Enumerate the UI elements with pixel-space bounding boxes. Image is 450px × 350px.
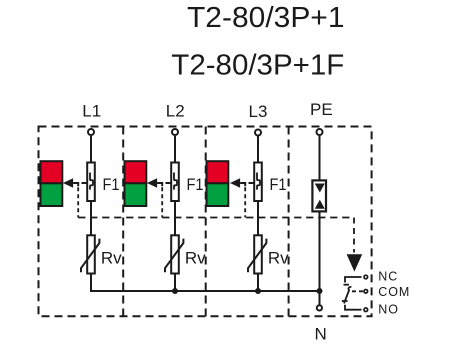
disconnector squiggle (branch 2) [174, 173, 177, 190]
junction L3/bus [255, 288, 261, 294]
svg-text:L2: L2 [166, 102, 185, 121]
svg-text:L1: L1 [82, 102, 101, 121]
svg-text:NO: NO [378, 302, 399, 316]
disconnector strike line (branch 1) [82, 182, 87, 184]
arrow tail (branch 2) [157, 183, 162, 186]
wire L1 terminal to fuse [90, 136, 92, 162]
wire fuse to varistor (branch 3) [257, 202, 259, 235]
indicator red (branch 2) [125, 161, 147, 183]
indicator green (branch 2) [125, 183, 147, 206]
GDT lower arrow (up) [315, 200, 325, 209]
arrow tail (branch 3) [240, 183, 245, 186]
arrow tail (branch 1) [73, 183, 78, 186]
svg-text:Rv: Rv [268, 249, 289, 268]
linkage dashed drop (branch 2) [161, 187, 163, 217]
COM lever [344, 287, 351, 304]
COM terminal circle [364, 290, 368, 294]
GDT upper arrow (down) [315, 184, 325, 193]
wire varistor to bus (branch 2) [174, 275, 176, 293]
indicator red (branch 1) [41, 161, 63, 183]
varistor diagonal (branch 2) [165, 239, 183, 273]
svg-text:N: N [315, 325, 327, 344]
terminal L1 [88, 129, 94, 135]
svg-text:F1: F1 [103, 175, 120, 194]
wire varistor to bus (branch 1) [90, 275, 92, 293]
disconnector squiggle (branch 1) [90, 173, 93, 190]
arrow to indicator (branch 1) [63, 178, 73, 188]
disconnector squiggle (branch 3) [257, 173, 260, 190]
separator dashed line 2 [205, 127, 207, 317]
linkage dashed drop (branch 3) [244, 187, 246, 217]
terminal L3 [255, 130, 261, 136]
fuse F1 (branch 3) body [254, 163, 262, 202]
wire varistor to bus (branch 3) [257, 275, 259, 293]
wire L3 terminal to fuse [257, 136, 259, 162]
fuse F1 (branch 2) body [171, 163, 179, 202]
varistor Rv (branch 3) body [254, 235, 262, 273]
junction PE/bus [317, 288, 323, 294]
NC rest tick [344, 284, 350, 286]
varistor diagonal (branch 1) [81, 239, 99, 273]
wire fuse to varistor (branch 2) [174, 202, 176, 235]
linkage dashed vertical to contact [353, 218, 355, 253]
bottom bus wire [91, 290, 320, 292]
svg-text:L3: L3 [249, 102, 268, 121]
svg-text:T2-80/3P+1F: T2-80/3P+1F [171, 50, 344, 82]
svg-text:T2-80/3P+1: T2-80/3P+1 [187, 2, 345, 34]
svg-text:COM: COM [378, 285, 410, 299]
disconnector strike line (branch 2) [166, 182, 171, 184]
linkage dashed horizontal [78, 217, 354, 219]
varistor Rv (branch 1) body [87, 235, 95, 273]
wire GDT to N terminal [319, 213, 321, 305]
NO terminal circle [364, 308, 368, 312]
NC dashed link [358, 276, 364, 278]
indicator green (branch 3) [207, 183, 229, 206]
svg-text:Rv: Rv [101, 249, 122, 268]
arrow to indicator (branch 2) [147, 178, 157, 188]
wire L2 terminal to fuse [174, 136, 176, 162]
terminal PE [317, 129, 323, 135]
svg-text:F1: F1 [187, 175, 204, 194]
enclosure dashed box [39, 127, 372, 317]
indicator green (branch 1) [41, 183, 63, 206]
COM dashed link [352, 290, 363, 292]
NC fixed contact [345, 277, 358, 283]
separator dashed line 3 [288, 127, 290, 317]
indicator red (branch 3) [207, 161, 229, 183]
terminal L2 [172, 129, 178, 135]
linkage actuator triangle [347, 254, 363, 271]
NC terminal circle [364, 275, 368, 279]
terminal N [317, 305, 322, 310]
svg-text:PE: PE [310, 100, 333, 119]
svg-text:NC: NC [378, 270, 398, 284]
NO fixed contact [345, 305, 358, 310]
arrow to indicator (branch 3) [230, 178, 240, 188]
COM pivot tick [342, 300, 348, 302]
separator dashed line 1 [122, 127, 124, 317]
disconnector strike line (branch 3) [249, 182, 254, 184]
varistor Rv (branch 2) body [171, 235, 179, 273]
svg-text:F1: F1 [270, 175, 287, 194]
wire fuse to varistor (branch 1) [90, 202, 92, 235]
svg-text:Rv: Rv [185, 249, 206, 268]
GDT / spark gap body [312, 180, 326, 211]
fuse F1 (branch 1) body [87, 163, 95, 202]
wire PE terminal to GDT [319, 136, 321, 180]
varistor diagonal (branch 3) [248, 239, 266, 273]
junction L2/bus [172, 288, 178, 294]
NO dashed link [358, 309, 364, 311]
linkage dashed drop (branch 1) [77, 187, 79, 217]
